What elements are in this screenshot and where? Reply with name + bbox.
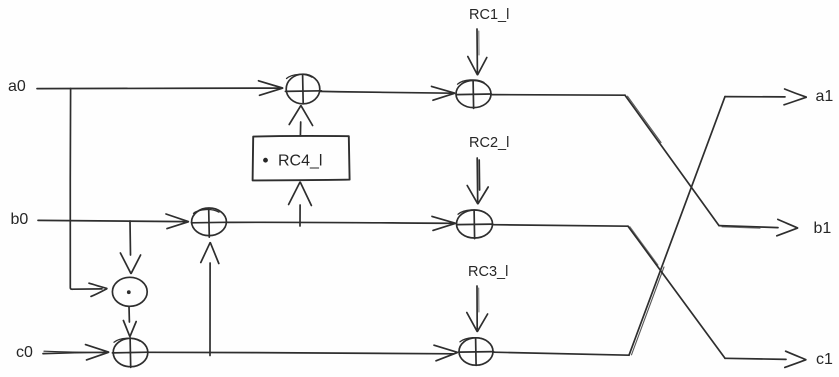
xor U5 [112,338,148,368]
svg-text:a0: a0 [8,78,26,95]
wire U2 output across to b1 [491,95,798,236]
svg-text:RC4_l: RC4_l [278,153,322,170]
wire RC3 arrow into U6 [467,286,488,331]
wire a0 input to XOR U1 [37,81,283,96]
xor U6 [459,338,494,366]
wire branch from c0 line up to U3 [201,243,219,356]
wire b0 input to XOR U3 [38,214,188,229]
wire U1 to XOR U2 [321,86,455,100]
xor U2 [456,80,491,109]
wire RC1 arrow into U2 [468,29,487,75]
svg-text:c1: c1 [816,351,833,368]
svg-text:b1: b1 [814,220,832,237]
wire multiplier down to U5 [123,306,136,336]
wire U5 to XOR U6 [149,345,458,361]
svg-text:RC1_l: RC1_l [469,7,509,23]
svg-text:RC2_l: RC2_l [469,135,509,151]
wire c0 input to XOR U5 [43,345,109,360]
wire U4 output across to c1 [493,225,806,368]
label RC4_l [263,153,322,170]
wire branch from b0 down to multiplier [120,221,140,273]
box RC4 [253,136,350,180]
svg-text:a1: a1 [816,88,834,105]
svg-text:c0: c0 [16,344,33,361]
xor U4 [457,210,493,239]
xor U3 [191,208,226,237]
wire U3 to XOR U4 [227,216,456,230]
wire RC4 box up to U1 [289,106,312,136]
wire U6 output across to a1 [494,89,807,355]
xor U1 [285,74,321,104]
wire branch from b0 line up to RC4 box [289,182,312,226]
wire branch from a0 down to multiplier [70,89,107,297]
svg-text:b0: b0 [11,211,29,228]
multiplier M1 [112,277,147,306]
wire RC2 arrow into U4 [467,158,488,204]
svg-text:RC3_l: RC3_l [468,264,508,280]
